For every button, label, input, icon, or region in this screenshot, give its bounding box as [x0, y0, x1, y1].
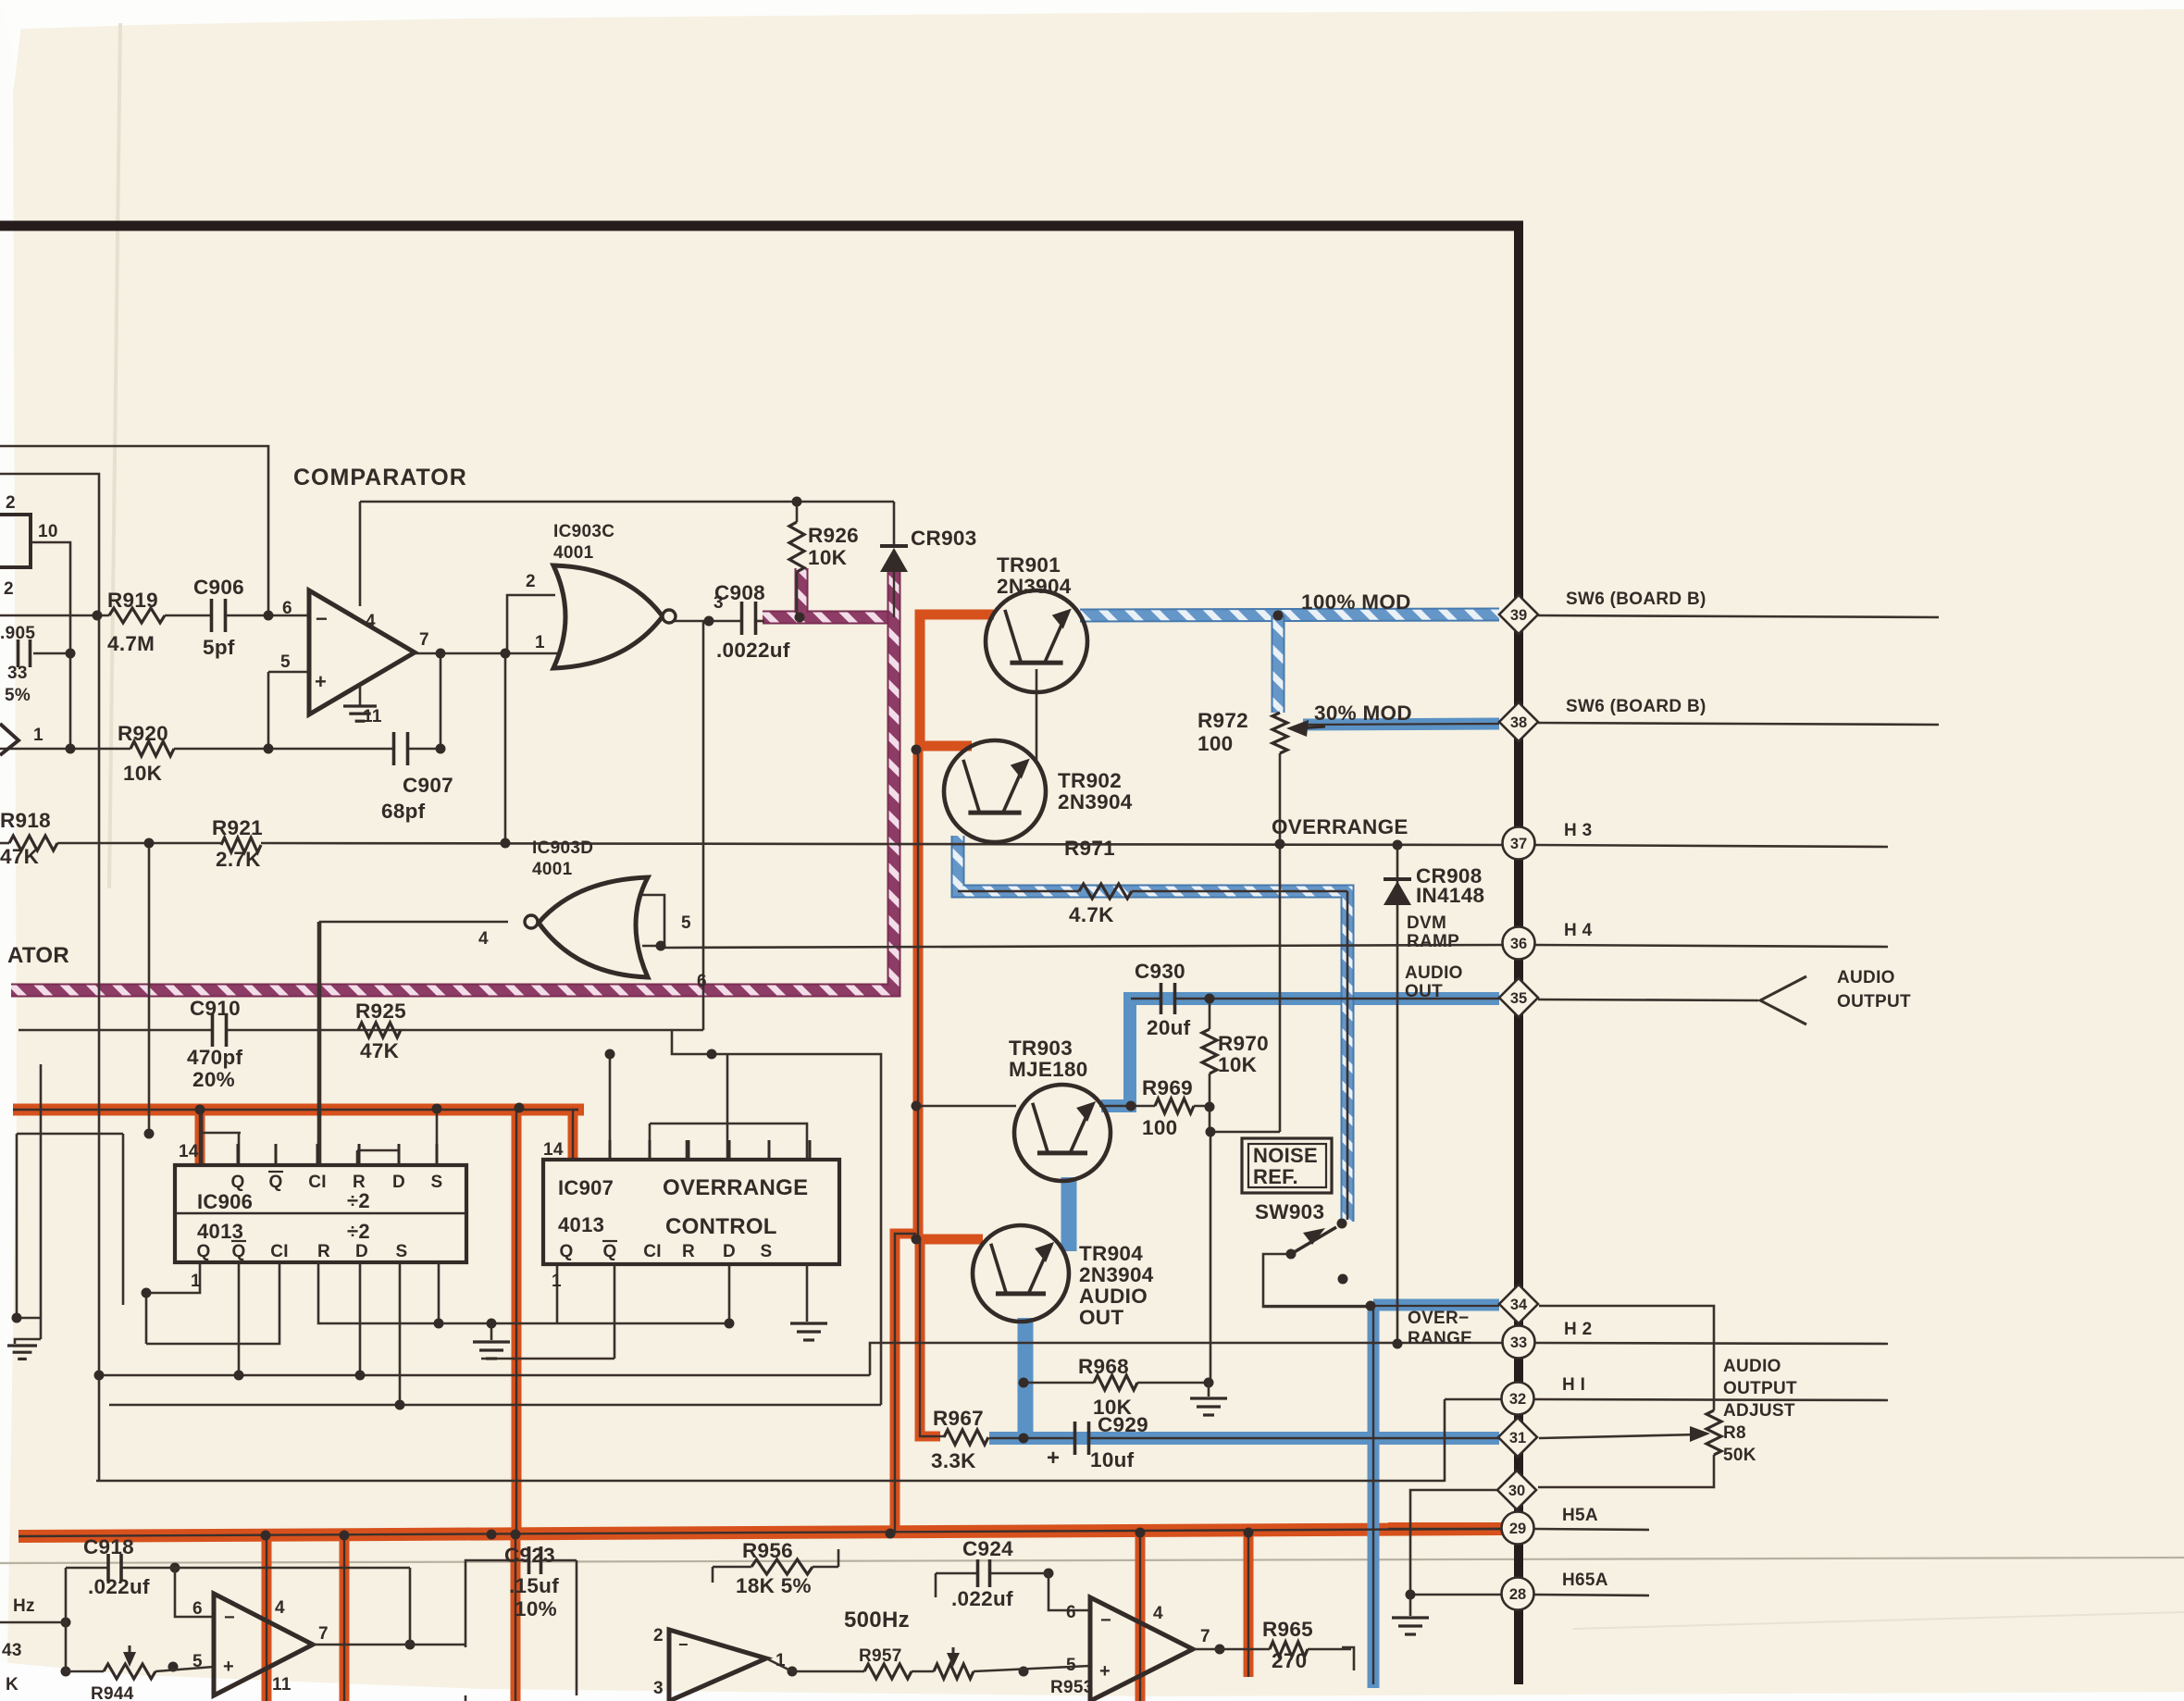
svg-text:OVER−: OVER−: [1408, 1309, 1469, 1328]
svg-text:4013: 4013: [558, 1213, 604, 1236]
wire R970 node link: [1209, 998, 1211, 1029]
transistor TR904: [973, 1225, 1069, 1322]
maroon hatched C908 line: [763, 611, 900, 625]
resistor R919: [109, 608, 165, 623]
svg-text:C907: C907: [403, 774, 453, 797]
junction node bus1: [261, 1531, 271, 1541]
junction node R970 bottom: [1205, 1102, 1215, 1112]
wire R965 right: [1308, 1648, 1351, 1651]
svg-text:3.3K: 3.3K: [931, 1449, 976, 1472]
wire R968 line: [1024, 1382, 1094, 1384]
wire overrange CR908 vertical: [1396, 845, 1399, 1344]
audio output bracket: [1760, 976, 1806, 1024]
wire core R967 feed: [920, 1239, 944, 1436]
wire IC907 top bridge: [650, 1124, 807, 1160]
junction node box10: [66, 744, 76, 754]
svg-text:2: 2: [653, 1626, 664, 1645]
wire top-left feedback y482: [0, 446, 268, 615]
wire stub 35: [1538, 999, 1758, 1000]
ic906 top pin stubs: [237, 1144, 240, 1165]
red highlight below-bus drop C923: [511, 1533, 521, 1701]
resistor R8 pot: [1706, 1410, 1721, 1455]
junction node opC out: [1215, 1645, 1225, 1655]
svg-text:68pf: 68pf: [381, 800, 426, 823]
ground R968: [1208, 1383, 1210, 1397]
crease bottom right: [1573, 1612, 2184, 1629]
svg-text:R918: R918: [0, 809, 51, 832]
red highlight bottom bus: [19, 1529, 1502, 1536]
junction node R972 bottom: [1275, 839, 1285, 850]
red highlight left vertical to bottom bus: [512, 1110, 522, 1533]
junction node cap905: [66, 649, 76, 659]
svg-text:IC906: IC906: [197, 1190, 253, 1213]
junction node R pin gnd: [487, 1319, 497, 1329]
maroon hatched vertical and horizontal: [11, 568, 894, 990]
transistor TR902: [944, 740, 1046, 842]
wire 28 below: [1514, 1610, 1523, 1684]
junction node SW903 nc: [1338, 1274, 1348, 1285]
red highlight below-bus drop B: [340, 1535, 350, 1701]
svg-text:50K: 50K: [1723, 1446, 1756, 1465]
svg-text:R972: R972: [1197, 709, 1248, 732]
red highlight R967 feed: [920, 1239, 940, 1436]
wire 30%MOD black core: [1303, 724, 1499, 725]
wire R920 line: [0, 748, 130, 751]
junction node bus4: [511, 1530, 521, 1540]
wire C930 black core: [1131, 998, 1161, 1000]
capacitor C924: [976, 1559, 980, 1587]
junction node R968 left: [1019, 1378, 1029, 1388]
svg-text:S: S: [431, 1173, 443, 1192]
svg-text:H65A: H65A: [1562, 1571, 1608, 1590]
svg-text:Q: Q: [559, 1242, 573, 1261]
wire C929 black core: [989, 1437, 1075, 1440]
svg-text:5: 5: [681, 913, 691, 933]
svg-text:2: 2: [526, 572, 536, 591]
svg-text:+: +: [1047, 1446, 1060, 1471]
capacitor C906: [210, 599, 214, 632]
svg-text:20uf: 20uf: [1147, 1016, 1191, 1039]
svg-text:K: K: [6, 1675, 19, 1695]
svg-text:+: +: [1099, 1661, 1111, 1682]
svg-text:Q: Q: [230, 1173, 244, 1192]
junction node TR904 base: [912, 1235, 922, 1245]
red highlight into connector 29: [1388, 1522, 1501, 1535]
svg-text:5pf: 5pf: [203, 636, 235, 659]
junction node C929 left: [1019, 1434, 1029, 1444]
svg-text:Q: Q: [268, 1173, 282, 1192]
label IC907 Qbar overline: [602, 1240, 617, 1242]
wire core drop E: [1247, 1532, 1249, 1677]
paper top-left white wedge: [0, 0, 24, 93]
blue highlight 30% MOD: [1303, 724, 1499, 725]
svg-text:2N3904: 2N3904: [1079, 1263, 1154, 1286]
wire stub 37: [1535, 845, 1888, 847]
svg-text:IC903D: IC903D: [532, 838, 593, 858]
resistor R921: [221, 838, 261, 852]
junction node overrange: [1393, 840, 1403, 850]
svg-text:AUDIO: AUDIO: [1723, 1357, 1781, 1376]
svg-text:TR903: TR903: [1009, 1037, 1073, 1060]
svg-text:S: S: [761, 1242, 773, 1261]
red highlight IC907 pin14 drop: [573, 1110, 578, 1159]
wire R926 leads: [796, 502, 799, 522]
svg-text:OUTPUT: OUTPUT: [1723, 1379, 1797, 1398]
svg-text:30% MOD: 30% MOD: [1314, 702, 1412, 725]
svg-text:C924: C924: [962, 1537, 1013, 1560]
maroon hatched R926 stub: [795, 568, 809, 613]
wire 28 line to ground: [1410, 1594, 1503, 1596]
svg-text:1: 1: [552, 1272, 562, 1291]
switch SW903 lever: [1291, 1227, 1336, 1254]
svg-text:Q: Q: [602, 1242, 616, 1261]
svg-text:R921: R921: [212, 816, 263, 839]
svg-text:H 2: H 2: [1564, 1320, 1592, 1339]
wire R919 line: [0, 615, 109, 617]
svg-text:500Hz: 500Hz: [844, 1608, 910, 1633]
svg-text:AUDIO: AUDIO: [1837, 968, 1895, 987]
svg-text:MJE180: MJE180: [1009, 1058, 1088, 1081]
svg-text:R957: R957: [859, 1646, 902, 1666]
svg-text:.022uf: .022uf: [88, 1575, 150, 1598]
svg-text:−: −: [678, 1635, 689, 1654]
svg-text:14: 14: [179, 1142, 199, 1161]
border top line: [0, 221, 1523, 231]
svg-text:R956: R956: [742, 1539, 793, 1562]
svg-text:2: 2: [4, 579, 14, 599]
potentiometer R972: [1272, 713, 1287, 753]
red highlight upper bus: [13, 1104, 584, 1116]
wire core TR904 to bus: [895, 1234, 916, 1533]
svg-text:4013: 4013: [197, 1220, 243, 1243]
crease vertical left: [109, 23, 120, 888]
wire R969 line: [1099, 1105, 1155, 1108]
potentiometer bottom mid: [934, 1664, 974, 1679]
svg-text:30: 30: [1508, 1483, 1525, 1499]
wire core drop C: [515, 1533, 516, 1701]
junction node C907 right: [436, 744, 446, 754]
svg-text:2N3904: 2N3904: [1058, 790, 1133, 813]
capacitor C923: [527, 1546, 531, 1574]
nor-gate IC903D: [539, 877, 648, 977]
svg-text:D: D: [355, 1242, 368, 1261]
wire core pin14 906: [199, 1110, 201, 1164]
svg-text:7: 7: [419, 630, 429, 650]
ic-box IC906: [175, 1165, 466, 1262]
capacitor C918: [106, 1554, 110, 1582]
svg-text:5%: 5%: [5, 686, 31, 705]
svg-text:C930: C930: [1135, 960, 1185, 983]
transistor TR903: [1014, 1085, 1111, 1181]
wire IC906 S supply: [436, 1110, 439, 1165]
svg-text:43: 43: [2, 1641, 22, 1660]
op-amp left partial: [0, 724, 19, 755]
svg-text:270: 270: [1272, 1649, 1307, 1672]
svg-text:TR902: TR902: [1058, 769, 1122, 792]
op-amp A bottom: [214, 1594, 313, 1695]
svg-text:11: 11: [272, 1675, 292, 1695]
svg-text:4: 4: [366, 612, 376, 631]
wire H2 33 line: [870, 1343, 1503, 1375]
svg-text:CONTROL: CONTROL: [665, 1214, 777, 1239]
svg-text:6: 6: [1066, 1603, 1076, 1622]
svg-text:7: 7: [1200, 1627, 1210, 1646]
svg-text:38: 38: [1510, 714, 1527, 731]
svg-text:H5A: H5A: [1562, 1506, 1598, 1525]
ic907 top pin stubs: [609, 1140, 612, 1160]
wire output to R921 node: [504, 653, 507, 843]
wire C924 line: [936, 1572, 978, 1575]
junction node C906 left: [93, 611, 103, 621]
wire TR901 emitter to TR902: [1036, 669, 1038, 763]
svg-text:5: 5: [192, 1652, 203, 1671]
svg-text:10uf: 10uf: [1090, 1448, 1135, 1471]
svg-text:ATOR: ATOR: [7, 943, 69, 968]
wire stub 29: [1534, 1529, 1649, 1530]
capacitor C910: [211, 1013, 215, 1047]
blue highlight overrange 34 line: [1373, 1299, 1499, 1311]
svg-text:33: 33: [7, 664, 28, 683]
svg-text:S: S: [396, 1242, 408, 1261]
wire IC903C pin3: [675, 620, 741, 623]
junction node R926 top: [792, 497, 802, 507]
svg-text:34: 34: [1510, 1297, 1528, 1313]
blue hatched 100% MOD line: [1080, 615, 1499, 615]
paper left white edge: [0, 0, 17, 1664]
wire 32 left leg: [1445, 1398, 1501, 1401]
wire CR903 branch: [893, 502, 896, 546]
junction node left edge: [12, 1313, 22, 1323]
wire IC906 bottom S: [399, 1264, 402, 1405]
wire core bottom bus: [19, 1529, 1501, 1536]
resistor R956: [751, 1559, 813, 1574]
junction node 100мод: [1273, 611, 1284, 621]
svg-text:R967: R967: [933, 1407, 984, 1430]
wire stub 32: [1534, 1399, 1888, 1400]
wire IC907 top pins up: [609, 1054, 612, 1160]
wire IC906 harness: [202, 1132, 241, 1135]
svg-text:29: 29: [1509, 1521, 1526, 1537]
junction node gnd28: [1406, 1590, 1416, 1600]
wire opA left col: [65, 1568, 68, 1671]
svg-text:÷2: ÷2: [347, 1220, 370, 1243]
junction node out-R921: [501, 838, 511, 849]
svg-text:D: D: [723, 1242, 736, 1261]
connector 37 circle: [1503, 827, 1535, 860]
ground left edge: [7, 1344, 37, 1347]
wire IC906 bottom Qbar: [238, 1264, 241, 1375]
svg-text:ADJUST: ADJUST: [1723, 1401, 1795, 1421]
wire IC903D output: [320, 922, 508, 1165]
svg-text:2N3904: 2N3904: [997, 575, 1072, 598]
wire C908 node drop: [702, 621, 705, 1030]
resistor R926: [789, 522, 804, 572]
wire opC out: [1193, 1648, 1270, 1651]
wire R8 loop bottom: [1538, 1455, 1714, 1487]
junction node bus S: [432, 1104, 442, 1114]
svg-text:CI: CI: [308, 1173, 327, 1192]
svg-text:4001: 4001: [532, 860, 573, 879]
wire IC906 CI vertical: [317, 922, 320, 1165]
svg-text:TR901: TR901: [997, 553, 1061, 577]
junction node Rpin474: [434, 1319, 444, 1329]
wire core 29 feed: [1388, 1528, 1501, 1530]
red highlight below-bus drop A: [262, 1535, 272, 1701]
svg-text:CI: CI: [643, 1242, 662, 1261]
wire C923 loop: [465, 1560, 529, 1647]
wire IC906 bottom Q1: [146, 1264, 200, 1293]
ground H65A: [1409, 1595, 1412, 1616]
wire 31 wiper arrow: [1539, 1434, 1699, 1438]
svg-text:SW6 (BOARD B): SW6 (BOARD B): [1566, 697, 1706, 716]
wire R972 bottom to node: [1279, 753, 1282, 1132]
svg-text:C929: C929: [1098, 1413, 1148, 1436]
junction node blue34: [1366, 1301, 1376, 1311]
connector 28 circle: [1502, 1578, 1534, 1610]
resistor R920: [130, 741, 174, 756]
junction node lineA Qbar: [234, 1371, 244, 1381]
svg-text:470pf: 470pf: [187, 1046, 242, 1069]
resistor R918: [9, 836, 57, 850]
svg-text:10K: 10K: [1218, 1053, 1258, 1076]
svg-text:OUT: OUT: [1079, 1306, 1123, 1329]
svg-text:H 4: H 4: [1564, 921, 1593, 940]
svg-text:−: −: [1100, 1610, 1111, 1631]
wire line B y1518: [109, 1404, 881, 1407]
junction node R969R970: [1206, 1127, 1216, 1137]
svg-text:C906: C906: [193, 576, 244, 599]
junction node SW903 pivot: [1286, 1249, 1297, 1260]
svg-text:+: +: [223, 1657, 234, 1677]
svg-text:−: −: [316, 607, 328, 630]
svg-text:R8: R8: [1723, 1423, 1746, 1443]
wire opB-R957: [792, 1670, 864, 1673]
wire core drop A: [266, 1535, 267, 1701]
blue highlight audio out 35 line: [1101, 999, 1499, 1106]
wire R956 leads: [713, 1566, 751, 1569]
op-amp comparator U1: [309, 590, 415, 714]
svg-text:TR904: TR904: [1079, 1242, 1143, 1265]
resistor R970: [1202, 1029, 1217, 1074]
svg-text:7: 7: [318, 1624, 329, 1644]
svg-text:100: 100: [1142, 1116, 1177, 1139]
paper top white band: [0, 0, 2184, 30]
svg-text:DVM: DVM: [1407, 913, 1446, 933]
svg-text:AUDIO: AUDIO: [1079, 1285, 1148, 1308]
wire core blue vertical: [1372, 1307, 1374, 1684]
wire to opC pin5: [974, 1666, 1090, 1671]
junction node y1225: [144, 1129, 155, 1139]
wire IC906 bottom R: [318, 1264, 729, 1323]
svg-text:.0022uf: .0022uf: [716, 639, 790, 662]
svg-text:.15uf: .15uf: [509, 1574, 559, 1597]
svg-text:36: 36: [1510, 936, 1527, 952]
svg-text:H 3: H 3: [1564, 821, 1592, 840]
junction node bus2: [340, 1531, 350, 1541]
ground comparator: [359, 685, 362, 705]
wire opA out: [313, 1644, 465, 1646]
junction node C924: [1044, 1569, 1054, 1579]
svg-text:CI: CI: [270, 1242, 289, 1261]
wire core left red vertical: [515, 1110, 517, 1533]
junction node IC906 pin1: [142, 1288, 152, 1298]
junction node C930: [1205, 994, 1215, 1004]
svg-text:1: 1: [535, 633, 545, 652]
svg-text:R919: R919: [107, 589, 158, 612]
blue highlight TR904 emitter: [1018, 1318, 1034, 1438]
svg-text:IN4148: IN4148: [1416, 884, 1484, 907]
junction node bus7: [1244, 1528, 1254, 1538]
wire IC907 bottom D: [728, 1264, 731, 1323]
resistor R957: [864, 1664, 912, 1679]
box left IC: [0, 515, 31, 567]
svg-text:R965: R965: [1262, 1618, 1313, 1641]
red highlight IC906 pin14 drop: [195, 1110, 205, 1164]
svg-text:R968: R968: [1078, 1355, 1129, 1378]
svg-text:1: 1: [191, 1272, 201, 1291]
svg-text:R926: R926: [808, 524, 859, 547]
noise-ref box: [1242, 1138, 1332, 1193]
svg-text:C918: C918: [83, 1535, 134, 1558]
wire core upper bus: [13, 1109, 578, 1111]
wire stub 33: [1535, 1343, 1888, 1344]
label IC906 Qbar overline: [268, 1171, 283, 1173]
red highlight TR902 feed: [920, 741, 972, 751]
potentiometer R944: [104, 1664, 155, 1679]
svg-text:10%: 10%: [515, 1597, 557, 1620]
junction node TR903 coll: [1126, 1101, 1136, 1111]
junction node bus5: [886, 1529, 896, 1539]
junction node blue hatch sw: [1337, 1219, 1347, 1229]
svg-text:RAMP: RAMP: [1407, 932, 1459, 951]
junction node Q line2: [605, 1049, 615, 1060]
svg-text:4001: 4001: [553, 543, 594, 563]
resistor R968: [1094, 1375, 1137, 1390]
connector 33 circle: [1503, 1326, 1535, 1359]
wire IC907 pin1 area: [556, 1264, 559, 1323]
capacitor C908: [740, 602, 744, 635]
svg-text:14: 14: [543, 1140, 564, 1160]
svg-text:C910: C910: [190, 997, 241, 1020]
wire comparator output: [415, 652, 559, 655]
wire opB out: [766, 1658, 792, 1671]
wire TR903 base: [916, 1105, 1016, 1108]
junction node op5: [264, 744, 274, 754]
red highlight TR902-TR903 vertical: [913, 746, 924, 1239]
red highlight to bottom bus from TR904 node: [895, 1234, 916, 1533]
svg-text:2.7K: 2.7K: [216, 848, 261, 871]
svg-text:R969: R969: [1142, 1076, 1193, 1099]
wire DVM ramp 36 line: [664, 945, 1503, 948]
wire core pin14 907: [573, 1110, 578, 1159]
svg-text:OVERRANGE: OVERRANGE: [663, 1175, 808, 1200]
junction node R968 right: [1204, 1378, 1214, 1388]
svg-text:H I: H I: [1562, 1375, 1585, 1395]
svg-text:31: 31: [1509, 1430, 1526, 1446]
svg-text:OVERRANGE: OVERRANGE: [1272, 815, 1408, 838]
wire core drop B: [343, 1535, 345, 1701]
wire stub 38: [1538, 723, 1939, 725]
junction node bus3: [487, 1530, 497, 1540]
wire comparator pin5: [268, 671, 309, 674]
capacitor C930: [1160, 983, 1163, 1014]
connector 34 diamond: [1499, 1285, 1538, 1323]
connector 36 circle: [1503, 927, 1535, 960]
svg-text:5: 5: [1066, 1656, 1076, 1675]
svg-text:5: 5: [280, 652, 291, 672]
connector 35 diamond: [1499, 978, 1538, 1017]
wire core drop D: [1139, 1533, 1141, 1701]
